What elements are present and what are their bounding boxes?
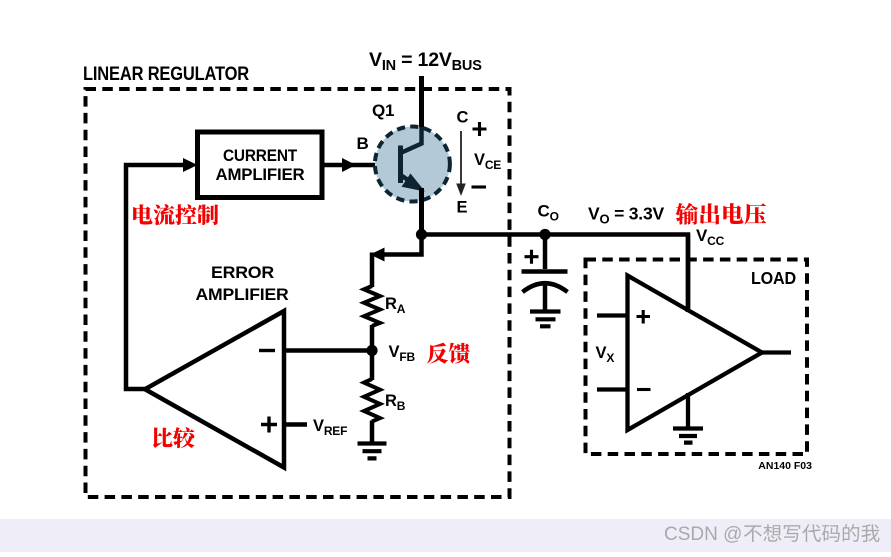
minus sign (VCE -) [472,185,487,188]
plus sign (non-inverting input) [261,417,277,433]
watermark bar [0,519,891,552]
transistor Q1 symbol: emitter stroke with arrow [401,175,418,186]
svg-text:ERROR: ERROR [211,263,274,282]
svg-text:AMPLIFIER: AMPLIFIER [196,285,289,304]
label (red) 比较 compare [153,427,173,448]
arrowhead on base wire [342,158,356,172]
arrowhead into current amplifier input [183,158,198,172]
transistor Q1 symbol: collector stroke [401,127,422,153]
wire: output rail to load [422,235,689,309]
wire: current amplifier output to Q1 base [322,163,398,168]
wire: RA bottom to VFB node [370,325,375,350]
plus sign (VCE +) [473,122,487,136]
node: CO junction dot [539,229,550,240]
svg-text:LINEAR REGULATOR: LINEAR REGULATOR [83,64,249,85]
op-amp: ERROR AMPLIFIER (triangle) [145,311,284,468]
wire: VIN supply down to Q1 collector [419,76,424,146]
transistor Q1 symbol: base bar [398,146,403,184]
wire: error amp inverting input to VFB node [284,348,372,353]
wire: load amp ground [686,393,690,429]
wire: VFB node to RB top [370,351,375,381]
transistor Q1 body (dashed circle, shaded) [375,127,450,202]
wire: corner down to RA top [370,253,375,288]
capacitor CO (polarized) [543,235,548,270]
wire: VREF stub into + input [284,422,307,427]
dashed box: LINEAR REGULATOR enclosure [86,89,510,497]
dashed box: LOAD enclosure [586,260,808,455]
svg-text:AMPLIFIER: AMPLIFIER [216,165,305,184]
minus sign (inverting input) [259,349,275,352]
svg-text:E: E [457,199,468,217]
wire: - input stub [597,387,628,391]
wire: load amp output stub [762,350,791,354]
wire: feedback vertical from error amp to current amplifier input [126,165,184,389]
ground under load amp [673,429,703,443]
svg-text:CURRENT: CURRENT [223,146,298,165]
node VFB junction dot [366,345,377,356]
ground under RB [358,444,387,459]
svg-text:CSDN @: CSDN @ [664,524,742,545]
arrow: VCE direction C to E [460,131,462,185]
plus sign (load + input) [637,310,651,324]
wire: RB bottom to ground [370,421,375,444]
svg-text:LOAD: LOAD [751,268,796,288]
wire: output node down-left to RA (feedback sense) [382,235,422,255]
svg-text:C: C [457,109,469,127]
minus sign (load - input) [637,388,651,391]
wire: + input stub [597,313,628,317]
svg-text:AN140 F03: AN140 F03 [758,460,812,472]
ground under CO [530,312,561,327]
label (red) 电流控制 current control [133,204,152,224]
svg-text:VO = 3.3V: VO = 3.3V [588,204,664,227]
label (red) 反馈 feedback [427,343,448,364]
wire: VCC into load amp top [686,235,691,313]
node: emitter/output junction dot [416,229,427,240]
wire: CO to ground [543,284,548,312]
arrowhead toward RA [370,248,385,262]
label (red) 输出电压 output voltage [675,203,697,225]
svg-text:B: B [357,134,369,153]
block: CURRENT AMPLIFIER U1 [198,132,323,198]
op-amp: load amplifier (triangle) [628,276,763,431]
wire: Q1 emitter down to output node [419,188,424,236]
svg-text:Q1: Q1 [372,101,394,120]
resistor RB [364,379,380,422]
resistor RA [364,286,380,326]
